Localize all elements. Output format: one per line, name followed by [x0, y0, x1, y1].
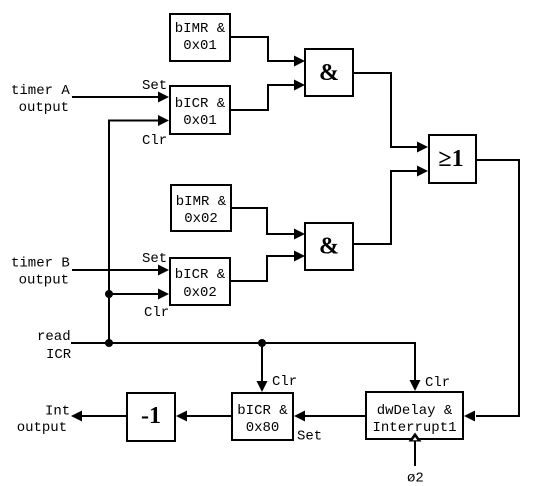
svg-text:output: output — [19, 100, 69, 116]
node label timer A output — [11, 83, 70, 116]
junction node read ICR / U6 Clr branch — [258, 339, 266, 347]
wire U4 out to G2 input B — [230, 256, 294, 281]
svg-text:≥1: ≥1 — [438, 146, 463, 172]
wire G3 out to U7 right input — [476, 160, 519, 416]
svg-text:ø2: ø2 — [407, 471, 424, 486]
svg-text:Clr: Clr — [425, 375, 450, 391]
OR gate G3 (>=1) — [429, 135, 476, 183]
svg-text:dwDelay &: dwDelay & — [377, 403, 453, 419]
wire U6 out to U5 input — [187, 415, 232, 417]
wire U5 out to Int output — [82, 415, 127, 417]
svg-text:0x01: 0x01 — [183, 113, 217, 129]
svg-text:0x02: 0x02 — [183, 285, 217, 301]
wire timer B output to U4 Set — [72, 269, 158, 271]
svg-text:&: & — [319, 60, 339, 86]
svg-text:Set: Set — [297, 429, 322, 445]
svg-text:-1: -1 — [141, 403, 161, 429]
AND gate G2 — [305, 223, 353, 270]
svg-text:timer B: timer B — [11, 256, 70, 272]
svg-text:ICR: ICR — [46, 347, 72, 363]
wire read ICR vertical feed to U2 Clr — [109, 121, 158, 344]
junction node on Clr feed — [105, 290, 113, 298]
svg-text:bIMR &: bIMR & — [176, 194, 227, 210]
node label timer B output — [11, 256, 70, 289]
inverter/negate box -1 U5 — [127, 393, 175, 441]
svg-text:read: read — [37, 329, 71, 345]
register bICR&0x02 U4 — [170, 258, 230, 305]
clock wedge (open arrow) at U7 bottom — [409, 433, 422, 442]
junction node read ICR / Clr feed — [105, 339, 113, 347]
svg-text:0x02: 0x02 — [184, 211, 218, 227]
svg-text:Set: Set — [142, 78, 167, 94]
svg-text:Clr: Clr — [272, 374, 297, 390]
svg-text:bICR &: bICR & — [175, 96, 226, 112]
svg-text:0x01: 0x01 — [183, 38, 217, 54]
svg-text:Clr: Clr — [142, 133, 167, 149]
svg-text:bICR &: bICR & — [237, 403, 288, 419]
wire U2 out to G1 input B — [231, 85, 294, 110]
svg-text:output: output — [17, 420, 67, 436]
register bIMR&0x02 U3 — [171, 185, 231, 231]
delay block dwDelay&Interrupt1 U7 — [366, 392, 463, 439]
svg-text:Clr: Clr — [144, 305, 169, 321]
register bICR&0x80 U6 — [232, 393, 293, 440]
register bIMR&0x01 U1 — [170, 14, 230, 61]
AND gate G1 — [305, 49, 353, 96]
svg-text:0x80: 0x80 — [246, 420, 280, 436]
svg-text:bICR &: bICR & — [175, 267, 226, 283]
wire G1 out to G3 input A — [353, 73, 417, 147]
wire read ICR horizontal to U7 Clr — [71, 343, 415, 380]
wire branch down to U6 Clr — [261, 343, 263, 381]
wire U1 out to G1 input A — [231, 37, 294, 61]
node label read ICR — [37, 329, 72, 363]
wire timer A output to U2 Set — [72, 96, 158, 98]
svg-text:bIMR &: bIMR & — [175, 21, 226, 37]
wire branch to U4 Clr — [109, 293, 158, 295]
svg-text:&: & — [319, 234, 339, 260]
wire U7 out to U6 Set — [305, 415, 366, 417]
wire G2 out to G3 input B — [353, 171, 417, 244]
svg-text:Int: Int — [45, 404, 70, 420]
wire phi2 clock into U7 bottom — [414, 441, 416, 466]
svg-text:Set: Set — [142, 251, 167, 267]
register bICR&0x01 U2 — [170, 86, 230, 134]
svg-text:output: output — [19, 273, 69, 289]
svg-text:timer A: timer A — [11, 83, 70, 99]
wire U3 out to G2 input A — [231, 208, 294, 234]
node label Int output — [17, 404, 71, 437]
